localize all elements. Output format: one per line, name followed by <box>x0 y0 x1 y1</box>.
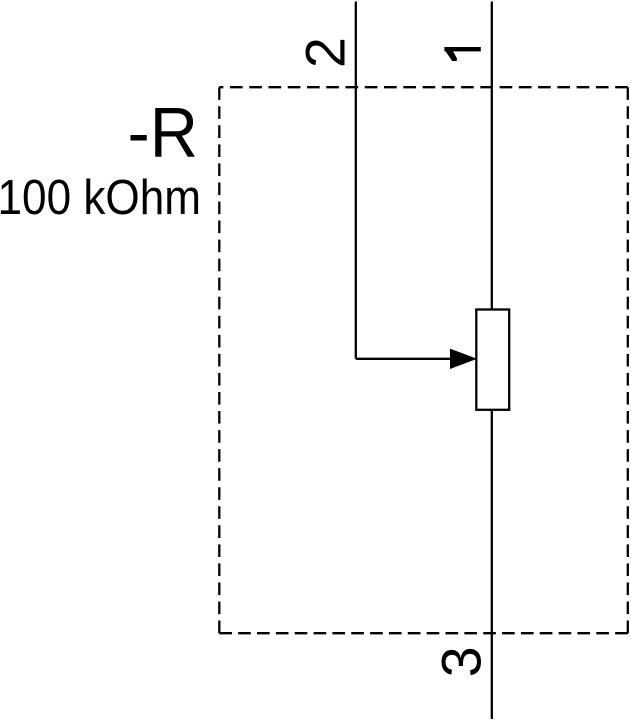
wire pin 2 vertical segment <box>355 2 357 359</box>
wire wiper horizontal segment <box>356 358 452 360</box>
pin number 1 label <box>444 47 480 61</box>
svg-text:2: 2 <box>295 37 357 68</box>
pin number 3 label <box>431 646 493 677</box>
svg-text:3: 3 <box>431 646 493 677</box>
pin number 2 label <box>295 37 357 68</box>
svg-text:100 kOhm: 100 kOhm <box>0 170 201 225</box>
wire pin 1 vertical segment <box>491 2 493 311</box>
resistor body rectangle <box>476 310 509 410</box>
svg-text:-R: -R <box>128 93 199 172</box>
dashed outline box of potentiometer -R <box>219 87 628 633</box>
value 100 kOhm <box>0 170 201 225</box>
wire pin 3 vertical segment <box>491 410 493 719</box>
wiper arrow head <box>451 349 476 368</box>
designator -R <box>128 93 199 172</box>
